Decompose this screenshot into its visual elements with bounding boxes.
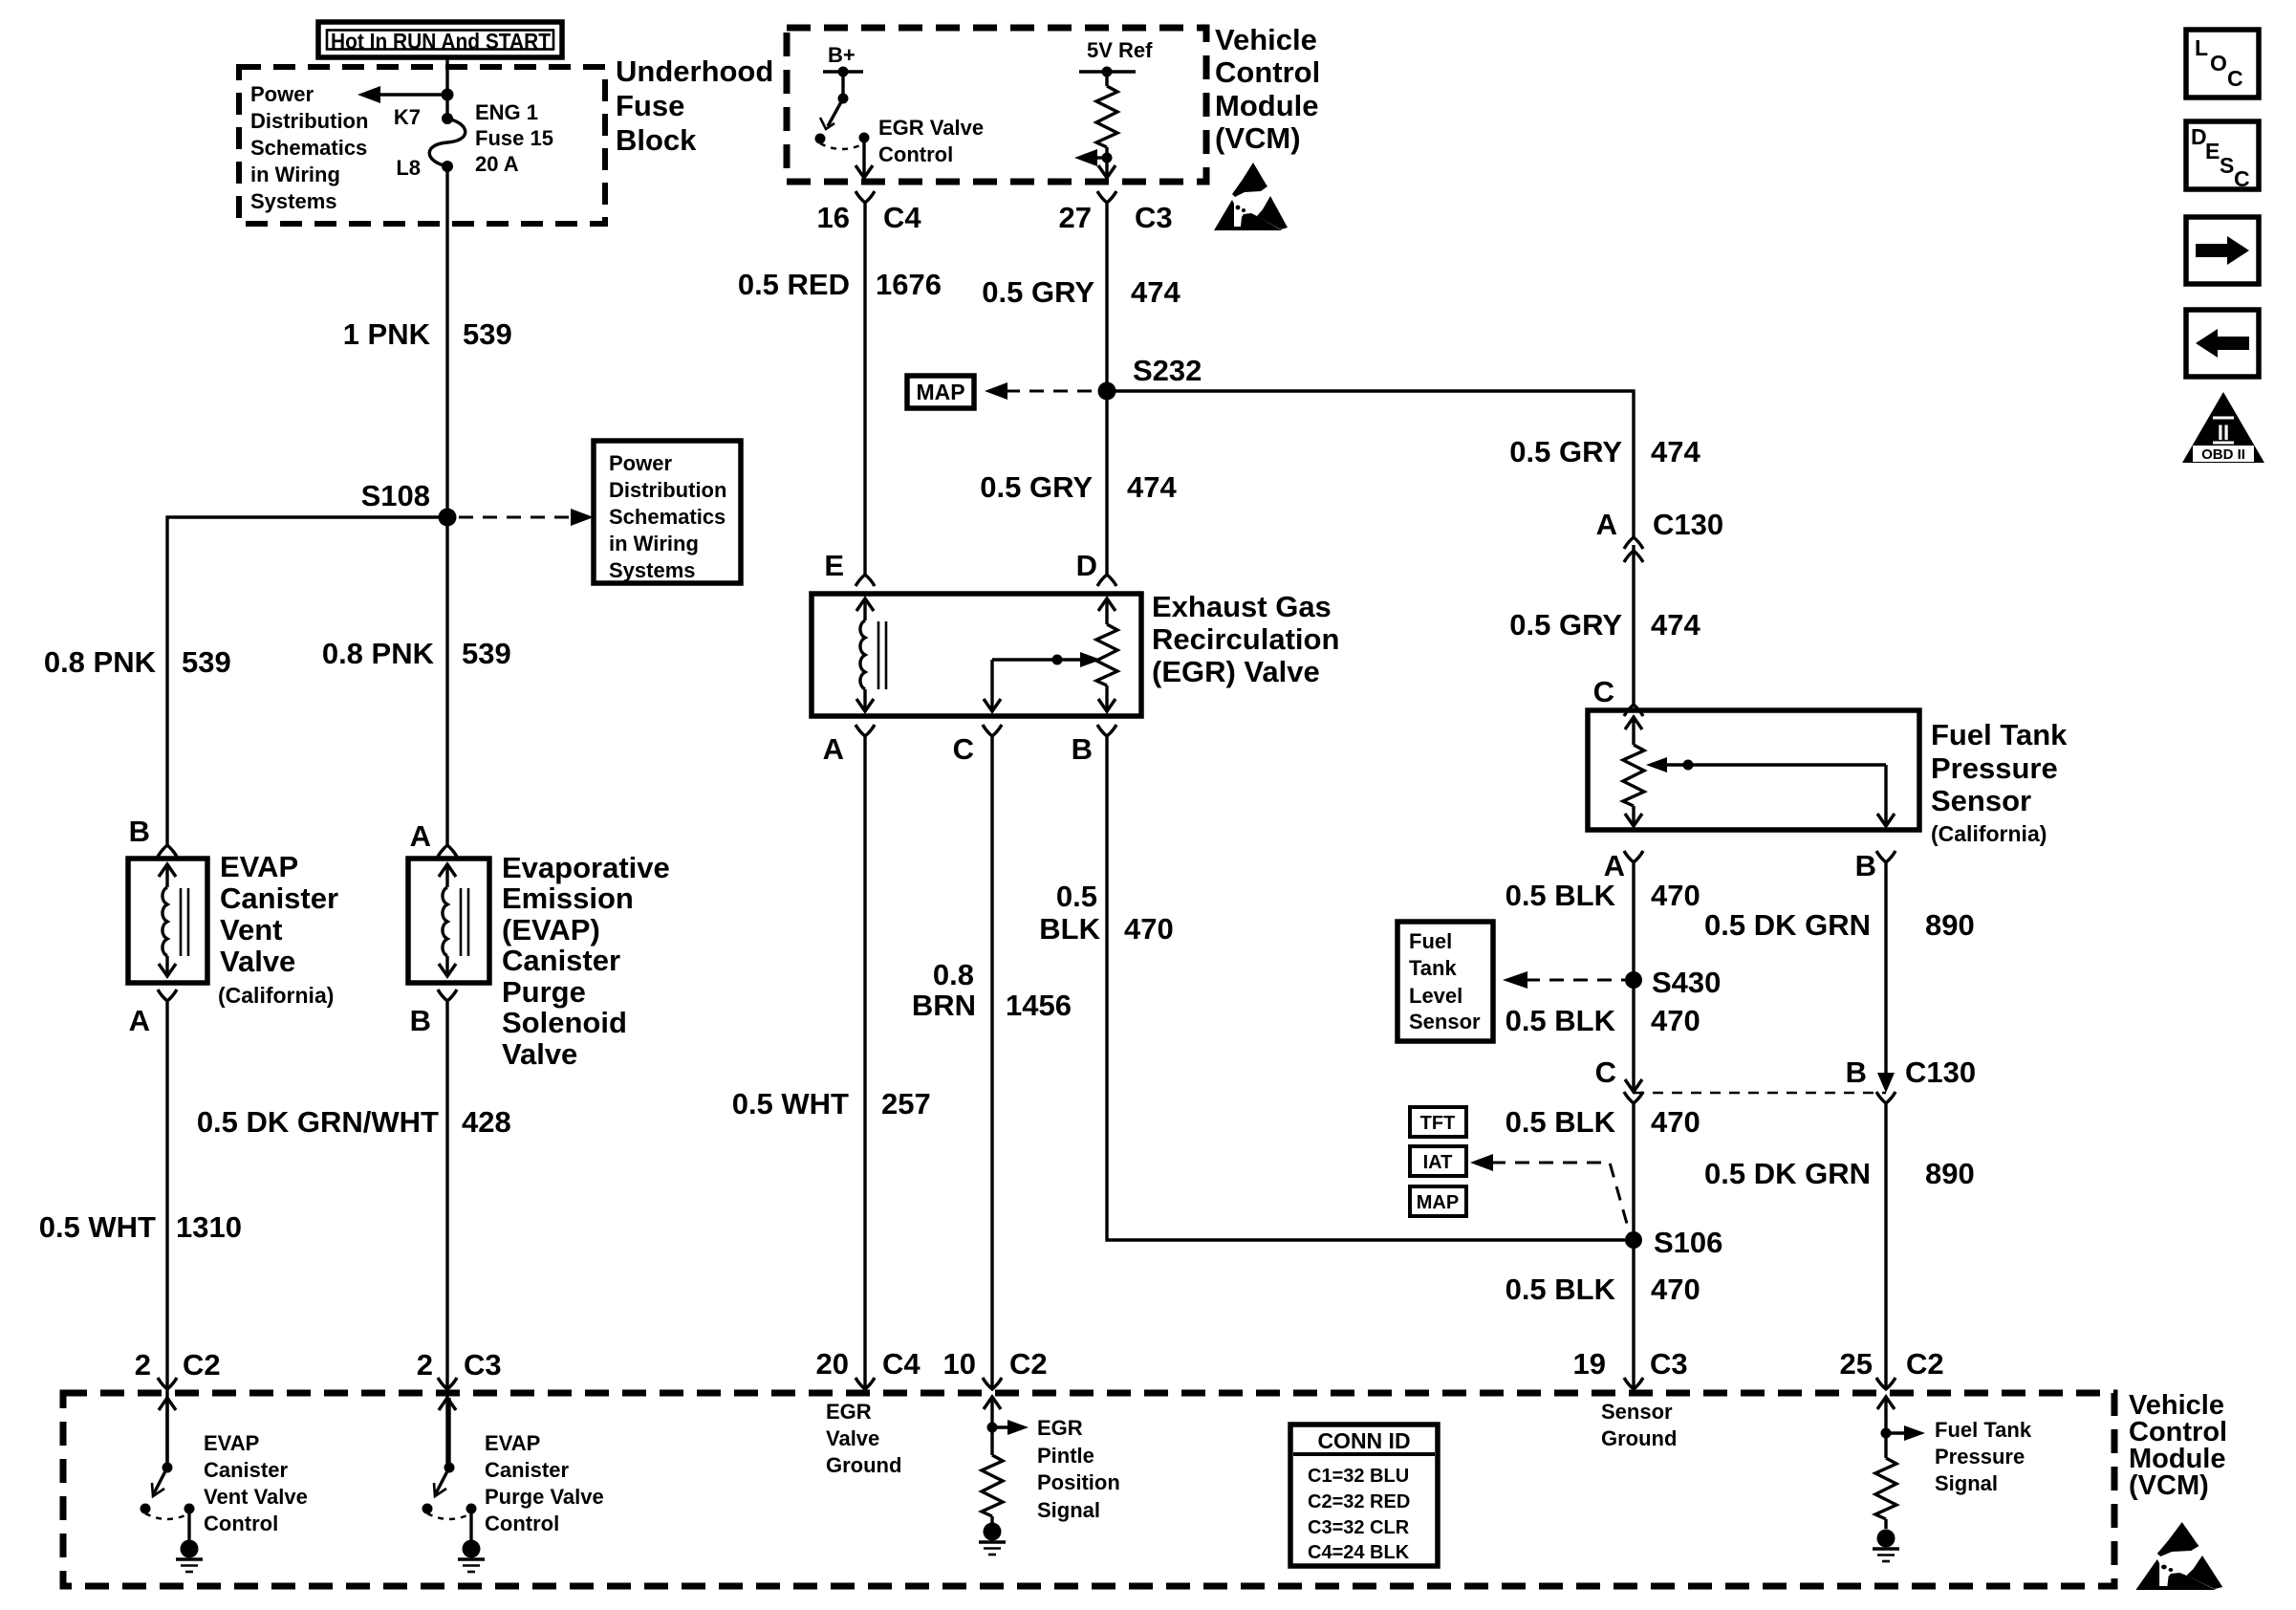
svg-text:Control: Control bbox=[878, 142, 953, 166]
label Exhaust Gas Recirculation (EGR) Valve bbox=[1152, 590, 1339, 688]
svg-text:EGR: EGR bbox=[826, 1400, 872, 1424]
svg-text:C3: C3 bbox=[1135, 201, 1173, 234]
svg-text:Module: Module bbox=[1215, 89, 1319, 122]
EGR pintle position potentiometer bbox=[1096, 598, 1117, 711]
svg-text:0.5 WHT: 0.5 WHT bbox=[732, 1087, 849, 1120]
label 0.8 PNK 539 (vent valve wire) bbox=[44, 645, 231, 679]
text power distribution schematics in wiring systems bbox=[250, 82, 368, 213]
svg-text:Sensor: Sensor bbox=[1931, 784, 2031, 817]
node S232 bbox=[1098, 382, 1116, 401]
svg-text:K7: K7 bbox=[394, 105, 421, 129]
svg-text:Canister: Canister bbox=[220, 881, 338, 915]
pin label B C130 bbox=[1846, 1055, 1977, 1089]
wire FTP A down to C130 C bbox=[1632, 862, 1635, 1092]
svg-text:25: 25 bbox=[1840, 1347, 1873, 1381]
svg-text:E: E bbox=[824, 549, 844, 582]
svg-text:Recirculation: Recirculation bbox=[1152, 622, 1339, 656]
svg-text:0.5 WHT: 0.5 WHT bbox=[39, 1210, 156, 1244]
svg-text:in Wiring: in Wiring bbox=[609, 532, 699, 555]
svg-text:Systems: Systems bbox=[609, 558, 696, 582]
svg-text:A: A bbox=[823, 732, 844, 766]
svg-text:Signal: Signal bbox=[1037, 1498, 1100, 1522]
svg-text:C: C bbox=[953, 732, 974, 766]
FTP sensor potentiometer bbox=[1623, 717, 1644, 826]
svg-text:A: A bbox=[410, 819, 431, 853]
label Vehicle Control Module (VCM) top bbox=[1215, 23, 1320, 155]
svg-text:Hot In RUN And START: Hot In RUN And START bbox=[331, 29, 551, 54]
svg-text:B: B bbox=[1072, 732, 1093, 766]
CONN ID table bbox=[1290, 1425, 1438, 1566]
svg-text:Power: Power bbox=[609, 451, 672, 475]
svg-text:539: 539 bbox=[463, 317, 512, 351]
node S108 bbox=[439, 509, 457, 527]
svg-text:Sensor: Sensor bbox=[1409, 1010, 1481, 1033]
svg-text:Systems: Systems bbox=[250, 189, 337, 213]
svg-text:Exhaust Gas: Exhaust Gas bbox=[1152, 590, 1332, 623]
svg-text:Ground: Ground bbox=[1601, 1426, 1677, 1450]
svg-text:Pressure: Pressure bbox=[1935, 1445, 2025, 1469]
pull-up resistor 5V ref bbox=[1096, 72, 1117, 178]
svg-text:TFT: TFT bbox=[1420, 1113, 1456, 1134]
wire S108 branch to vent valve bbox=[167, 517, 447, 845]
svg-text:C1=32 BLU: C1=32 BLU bbox=[1308, 1466, 1409, 1487]
svg-text:Signal: Signal bbox=[1935, 1471, 1998, 1495]
label EGR Pintle Position Signal bbox=[1037, 1416, 1120, 1522]
label Sensor Ground bbox=[1601, 1400, 1677, 1450]
svg-text:Fuel: Fuel bbox=[1409, 929, 1452, 953]
svg-text:S: S bbox=[2220, 153, 2234, 178]
label 0.5 GRY 474 (upper) bbox=[982, 275, 1180, 309]
svg-text:470: 470 bbox=[1651, 879, 1700, 912]
pin arrow into VCM bbox=[159, 1398, 176, 1410]
svg-text:1310: 1310 bbox=[176, 1210, 242, 1244]
label 0.5 BLK 470 (EGR B) bbox=[1039, 880, 1173, 946]
svg-text:C3: C3 bbox=[464, 1348, 502, 1382]
label 0.5 GRY 474 (to EGR D) bbox=[980, 470, 1177, 504]
node S106 bbox=[1625, 1231, 1642, 1249]
svg-text:10: 10 bbox=[943, 1347, 976, 1381]
svg-text:0.5 BLK: 0.5 BLK bbox=[1505, 1273, 1616, 1306]
label EGR Valve Ground bbox=[826, 1400, 901, 1477]
svg-text:0.8 PNK: 0.8 PNK bbox=[322, 637, 435, 670]
arrow to power distribution schematics bbox=[357, 86, 447, 103]
svg-text:0.5 GRY: 0.5 GRY bbox=[1509, 608, 1622, 642]
label Fuel Tank Pressure Sensor (California) bbox=[1931, 718, 2068, 846]
wire vent valve to VCM pin 2 C2 bbox=[165, 1001, 168, 1468]
svg-text:Pressure: Pressure bbox=[1931, 751, 2058, 785]
svg-text:0.5 GRY: 0.5 GRY bbox=[1509, 435, 1622, 468]
wire title box to fuse bbox=[445, 57, 448, 119]
svg-text:B: B bbox=[1846, 1055, 1867, 1089]
connector chevron below C bbox=[1624, 1092, 1643, 1103]
5V Ref rail bbox=[1079, 67, 1136, 77]
svg-text:Purge Valve: Purge Valve bbox=[485, 1485, 604, 1509]
wire S232 down to EGR D bbox=[1105, 391, 1108, 575]
connector chevron at VCM 2 C3 bbox=[438, 1378, 457, 1389]
svg-text:C4=24 BLK: C4=24 BLK bbox=[1308, 1542, 1410, 1563]
dashed arrow S106 to sensor boxes bbox=[1470, 1154, 1631, 1237]
svg-text:(VCM): (VCM) bbox=[1215, 121, 1301, 155]
svg-text:(VCM): (VCM) bbox=[2129, 1470, 2209, 1501]
svg-text:Control: Control bbox=[485, 1512, 559, 1535]
svg-text:20 A: 20 A bbox=[475, 152, 519, 176]
svg-text:Vehicle: Vehicle bbox=[1215, 23, 1317, 56]
svg-text:Valve: Valve bbox=[220, 945, 295, 978]
label 0.5 DK GRN 890 (below C130) bbox=[1704, 1157, 1975, 1190]
svg-text:Evaporative: Evaporative bbox=[502, 851, 670, 884]
svg-text:(EGR) Valve: (EGR) Valve bbox=[1152, 655, 1320, 688]
svg-text:5V Ref: 5V Ref bbox=[1087, 38, 1153, 62]
svg-text:C2: C2 bbox=[1009, 1347, 1048, 1381]
svg-text:S430: S430 bbox=[1652, 966, 1721, 999]
label 0.5 BLK 470 (below S430) bbox=[1505, 1004, 1700, 1037]
solenoid coil vent valve bbox=[159, 864, 188, 976]
wire C down to S106 and 19 C3 bbox=[1632, 1103, 1635, 1389]
label Underhood Fuse Block bbox=[616, 54, 773, 157]
svg-text:D: D bbox=[1076, 549, 1097, 582]
svg-text:EVAP: EVAP bbox=[204, 1431, 259, 1455]
EGR valve box bbox=[812, 594, 1141, 716]
svg-text:Position: Position bbox=[1037, 1470, 1120, 1494]
OBD II icon bbox=[2182, 392, 2264, 463]
label 0.5 BLK 470 (below S106) bbox=[1505, 1273, 1700, 1306]
svg-text:0.8 PNK: 0.8 PNK bbox=[44, 645, 157, 679]
svg-text:C2: C2 bbox=[183, 1348, 221, 1382]
svg-text:C130: C130 bbox=[1905, 1055, 1976, 1089]
svg-text:S108: S108 bbox=[361, 479, 430, 512]
ESD symbol top bbox=[1214, 163, 1288, 230]
svg-text:IAT: IAT bbox=[1423, 1152, 1453, 1173]
label Vehicle Control Module (VCM) bottom bbox=[2129, 1390, 2227, 1501]
svg-text:539: 539 bbox=[462, 637, 511, 670]
EVAP canister vent valve box bbox=[128, 859, 207, 983]
label EGR Valve Control bbox=[878, 116, 984, 166]
label 2 C2 bbox=[135, 1348, 221, 1382]
svg-text:1 PNK: 1 PNK bbox=[343, 317, 431, 351]
connector chevron at A bbox=[438, 845, 457, 857]
forward arrow icon bbox=[2186, 217, 2259, 284]
EVAP purge solenoid valve box bbox=[408, 859, 489, 983]
svg-text:C3: C3 bbox=[1650, 1347, 1688, 1381]
svg-text:EGR Valve: EGR Valve bbox=[878, 116, 984, 140]
svg-text:L8: L8 bbox=[396, 156, 421, 180]
svg-text:0.5 BLK: 0.5 BLK bbox=[1505, 1105, 1616, 1139]
EGR solenoid coil bbox=[856, 598, 886, 711]
solid arrow down at B bbox=[1877, 1073, 1895, 1093]
label 25 C2 bbox=[1840, 1347, 1944, 1381]
svg-text:Control: Control bbox=[204, 1512, 278, 1535]
svg-text:0.5 GRY: 0.5 GRY bbox=[980, 470, 1093, 504]
svg-text:0.5 RED: 0.5 RED bbox=[738, 268, 850, 301]
EGR valve control switch bbox=[815, 72, 874, 178]
svg-text:Control: Control bbox=[1215, 55, 1320, 89]
svg-text:C2=32 RED: C2=32 RED bbox=[1308, 1491, 1410, 1512]
svg-text:(California): (California) bbox=[218, 983, 334, 1008]
svg-text:C3=32 CLR: C3=32 CLR bbox=[1308, 1517, 1410, 1538]
svg-text:Purge: Purge bbox=[502, 975, 586, 1009]
svg-text:0.5 GRY: 0.5 GRY bbox=[982, 275, 1094, 309]
svg-text:2: 2 bbox=[135, 1348, 151, 1382]
connector chevron below A bbox=[856, 725, 875, 736]
svg-text:470: 470 bbox=[1651, 1105, 1700, 1139]
svg-text:Tank: Tank bbox=[1409, 956, 1457, 980]
internal arrow left at 5V node bbox=[1074, 149, 1113, 166]
connector chevron at 27 C3 bbox=[1097, 191, 1116, 203]
svg-text:(California): (California) bbox=[1931, 821, 2047, 846]
svg-text:0.5 BLK: 0.5 BLK bbox=[1505, 1004, 1616, 1037]
back arrow icon bbox=[2186, 310, 2259, 377]
svg-text:1456: 1456 bbox=[1006, 989, 1072, 1022]
svg-text:Sensor: Sensor bbox=[1601, 1400, 1673, 1424]
wire EGR C down to 10 C2 bbox=[990, 736, 993, 1389]
svg-text:B: B bbox=[1855, 849, 1876, 882]
svg-text:890: 890 bbox=[1925, 1157, 1975, 1190]
svg-text:Canister: Canister bbox=[485, 1458, 569, 1482]
EVAP canister vent valve control driver bbox=[141, 1463, 204, 1573]
svg-text:0.5 DK GRN: 0.5 DK GRN bbox=[1704, 908, 1871, 942]
svg-text:428: 428 bbox=[462, 1105, 511, 1139]
label 0.5 DK GRN/WHT 428 bbox=[197, 1105, 511, 1139]
svg-text:Vent: Vent bbox=[220, 913, 282, 946]
label 0.5 WHT 1310 bbox=[39, 1210, 242, 1244]
connector chevron at 19 C3 bbox=[1624, 1378, 1643, 1389]
svg-text:Level: Level bbox=[1409, 984, 1462, 1008]
wire FTP B down to C130 B bbox=[1884, 862, 1887, 1077]
svg-text:470: 470 bbox=[1651, 1004, 1700, 1037]
wire fuse L8 down to EVAP purge solenoid bbox=[445, 166, 448, 845]
label 0.8 PNK 539 (purge wire) bbox=[322, 637, 511, 670]
svg-text:0.5 BLK: 0.5 BLK bbox=[1505, 879, 1616, 912]
svg-text:890: 890 bbox=[1925, 908, 1975, 942]
wire EGR A down to 20 C4 bbox=[863, 736, 866, 1389]
svg-text:E: E bbox=[2205, 139, 2220, 163]
svg-text:27: 27 bbox=[1059, 201, 1092, 234]
svg-text:Schematics: Schematics bbox=[250, 136, 367, 160]
connector chevron below vent valve bbox=[158, 990, 177, 1001]
label 0.5 GRY 474 (above C130) bbox=[1509, 435, 1700, 468]
connector chevron at 16 C4 bbox=[856, 191, 875, 203]
svg-text:BLK: BLK bbox=[1039, 912, 1100, 946]
svg-text:474: 474 bbox=[1651, 608, 1700, 642]
svg-text:Fuse 15: Fuse 15 bbox=[475, 126, 553, 150]
svg-text:470: 470 bbox=[1124, 912, 1174, 946]
connector chevron at FTP C bbox=[1624, 705, 1643, 716]
label 0.5 GRY 474 (below C130) bbox=[1509, 608, 1700, 642]
svg-text:0.5 DK GRN/WHT: 0.5 DK GRN/WHT bbox=[197, 1105, 439, 1139]
svg-text:Fuse: Fuse bbox=[616, 89, 684, 122]
svg-text:Schematics: Schematics bbox=[609, 505, 726, 529]
label 10 C2 bbox=[943, 1347, 1048, 1381]
connector chevron at D bbox=[1097, 575, 1116, 586]
svg-text:1676: 1676 bbox=[876, 268, 942, 301]
EVAP canister purge valve control driver bbox=[422, 1463, 486, 1573]
svg-text:20: 20 bbox=[816, 1347, 849, 1381]
svg-text:0.8: 0.8 bbox=[933, 958, 974, 991]
pin arrow into VCM bbox=[439, 1398, 456, 1410]
svg-text:Emission: Emission bbox=[502, 881, 634, 915]
node S430 bbox=[1625, 971, 1642, 989]
connector chevron below FTP B bbox=[1876, 851, 1895, 862]
svg-text:EGR: EGR bbox=[1037, 1416, 1083, 1440]
fuel tank pressure sensor box bbox=[1588, 710, 1919, 830]
svg-text:2: 2 bbox=[417, 1348, 433, 1382]
svg-text:Ground: Ground bbox=[826, 1453, 901, 1477]
svg-text:Valve: Valve bbox=[502, 1037, 577, 1071]
fuse F15 ENG 1 bbox=[429, 113, 466, 172]
svg-text:MAP: MAP bbox=[916, 380, 964, 404]
EGR pintle position signal input bbox=[979, 1397, 1029, 1555]
label Fuel Tank Pressure Signal bbox=[1935, 1418, 2032, 1495]
label 2 C3 bbox=[417, 1348, 502, 1382]
connector chevron at VCM 2 C2 bbox=[158, 1378, 177, 1389]
open arrow down at C bbox=[1625, 1079, 1642, 1092]
svg-text:Fuel Tank: Fuel Tank bbox=[1935, 1418, 2032, 1442]
connector chevron below B bbox=[1097, 725, 1116, 736]
svg-text:C: C bbox=[1593, 675, 1614, 708]
label EVAP Canister Vent Valve (California) bbox=[218, 850, 338, 1008]
label 0.8 BRN 1456 bbox=[912, 958, 1072, 1022]
svg-text:19: 19 bbox=[1573, 1347, 1606, 1381]
label 0.5 BLK 470 (above S430) bbox=[1505, 879, 1700, 912]
wire pin 27 down to S232 bbox=[1105, 203, 1108, 391]
svg-text:Pintle: Pintle bbox=[1037, 1444, 1094, 1468]
pin arrow out of VCM 27 bbox=[1098, 165, 1116, 178]
svg-text:Canister: Canister bbox=[502, 944, 620, 977]
dashed arrow S430 to fuel tank level sensor bbox=[1503, 971, 1625, 989]
wire C130 A to FTP C bbox=[1632, 545, 1635, 705]
B+ rail bbox=[823, 67, 863, 77]
connector chevron below FTP A bbox=[1624, 851, 1643, 862]
label 1 PNK 539 bbox=[343, 317, 512, 351]
svg-text:S232: S232 bbox=[1133, 354, 1202, 387]
connector chevron below purge valve bbox=[438, 990, 457, 1001]
svg-text:B+: B+ bbox=[828, 43, 856, 67]
svg-text:O: O bbox=[2210, 51, 2227, 76]
svg-text:474: 474 bbox=[1127, 470, 1177, 504]
in-line connector C130 pin A bbox=[1624, 537, 1643, 562]
svg-text:C: C bbox=[2234, 166, 2250, 191]
svg-text:C: C bbox=[1595, 1055, 1616, 1089]
svg-text:A: A bbox=[129, 1004, 150, 1037]
ESD symbol bottom bbox=[2135, 1522, 2222, 1590]
wire C130 B down to 25 C2 bbox=[1884, 1103, 1887, 1389]
label 16 C4 bbox=[817, 201, 922, 234]
svg-text:Canister: Canister bbox=[204, 1458, 288, 1482]
label 0.5 WHT 257 bbox=[732, 1087, 931, 1120]
wire S232 right to C130 branch bbox=[1107, 391, 1634, 537]
TFT IAT MAP reference boxes bbox=[1410, 1107, 1466, 1216]
svg-text:in Wiring: in Wiring bbox=[250, 163, 340, 186]
svg-text:Underhood: Underhood bbox=[616, 54, 773, 88]
connector chevron below C bbox=[983, 725, 1002, 736]
label 0.5 BLK 470 (below C130) bbox=[1505, 1105, 1700, 1139]
connector chevron at B bbox=[158, 845, 177, 857]
svg-text:Block: Block bbox=[616, 123, 697, 157]
svg-text:474: 474 bbox=[1651, 435, 1700, 468]
connector chevron below B bbox=[1876, 1092, 1895, 1103]
connector chevron at 10 C2 bbox=[983, 1378, 1002, 1389]
label ENG 1 Fuse 15 20 A bbox=[475, 100, 553, 176]
svg-text:C4: C4 bbox=[883, 201, 921, 234]
MAP box bbox=[907, 376, 974, 408]
svg-text:C2: C2 bbox=[1906, 1347, 1944, 1381]
label 19 C3 bbox=[1573, 1347, 1688, 1381]
svg-text:II: II bbox=[2218, 421, 2229, 445]
label 0.5 DK GRN 890 (above C130) bbox=[1704, 908, 1975, 942]
svg-text:EVAP: EVAP bbox=[485, 1431, 540, 1455]
svg-text:0.5 DK GRN: 0.5 DK GRN bbox=[1704, 1157, 1871, 1190]
svg-text:C130: C130 bbox=[1653, 508, 1723, 541]
connector chevron at E bbox=[856, 575, 875, 586]
svg-text:B: B bbox=[129, 815, 150, 848]
svg-text:MAP: MAP bbox=[1417, 1192, 1459, 1213]
dashed arrow S232 to MAP bbox=[985, 382, 1095, 400]
svg-text:Vent Valve: Vent Valve bbox=[204, 1485, 308, 1509]
wire pin 16 down to EGR E bbox=[863, 203, 866, 575]
svg-text:S106: S106 bbox=[1654, 1226, 1722, 1259]
junction node on feed bbox=[442, 89, 454, 101]
dashed connector face line C130 bbox=[1634, 1092, 1886, 1095]
svg-text:A: A bbox=[1596, 508, 1617, 541]
svg-text:EVAP: EVAP bbox=[220, 850, 298, 883]
svg-text:(EVAP): (EVAP) bbox=[502, 913, 600, 946]
svg-text:C: C bbox=[2227, 66, 2243, 91]
svg-text:Distribution: Distribution bbox=[609, 478, 726, 502]
svg-text:257: 257 bbox=[881, 1087, 931, 1120]
svg-text:A: A bbox=[1604, 849, 1625, 882]
connector chevron at 20 C4 bbox=[856, 1378, 875, 1389]
potentiometer wiper bbox=[984, 652, 1101, 711]
svg-text:Solenoid: Solenoid bbox=[502, 1006, 627, 1039]
svg-text:B: B bbox=[410, 1004, 431, 1037]
svg-text:ENG 1: ENG 1 bbox=[475, 100, 538, 124]
fuel tank pressure signal input bbox=[1873, 1397, 1925, 1561]
svg-text:0.5: 0.5 bbox=[1056, 880, 1097, 913]
FTP wiper bbox=[1646, 757, 1895, 826]
svg-text:BRN: BRN bbox=[912, 989, 976, 1022]
svg-text:Valve: Valve bbox=[826, 1426, 879, 1450]
underhood fuse block dashed box bbox=[239, 67, 605, 224]
dashed arrow S108 to power distribution box bbox=[459, 509, 594, 526]
label Evaporative Emission (EVAP) Canister Purge Solenoid Valve bbox=[502, 851, 670, 1071]
svg-text:CONN ID: CONN ID bbox=[1317, 1428, 1410, 1453]
svg-text:C4: C4 bbox=[882, 1347, 921, 1381]
label A C130 bbox=[1596, 508, 1724, 541]
svg-text:OBD II: OBD II bbox=[2201, 446, 2245, 463]
LOC icon bbox=[2186, 30, 2259, 98]
label 0.5 RED 1676 bbox=[738, 268, 942, 301]
DESC icon bbox=[2186, 121, 2259, 191]
fuel tank level sensor box bbox=[1397, 922, 1493, 1041]
title box Hot In RUN And START bbox=[318, 22, 562, 57]
solenoid coil purge valve bbox=[439, 864, 468, 976]
svg-text:470: 470 bbox=[1651, 1273, 1700, 1306]
svg-text:539: 539 bbox=[182, 645, 231, 679]
svg-text:474: 474 bbox=[1131, 275, 1180, 309]
svg-text:Power: Power bbox=[250, 82, 314, 106]
label 27 C3 bbox=[1059, 201, 1173, 234]
wire purge valve to VCM pin 2 C3 bbox=[445, 1001, 448, 1468]
connector chevron at 25 C2 bbox=[1876, 1378, 1895, 1389]
svg-text:16: 16 bbox=[817, 201, 850, 234]
svg-text:L: L bbox=[2195, 35, 2208, 60]
wire EGR B down and right to S106 bbox=[1107, 736, 1625, 1240]
svg-text:Distribution: Distribution bbox=[250, 109, 368, 133]
label 20 C4 bbox=[816, 1347, 921, 1381]
svg-text:Fuel Tank: Fuel Tank bbox=[1931, 718, 2068, 751]
power distribution schematics box bbox=[594, 441, 741, 583]
